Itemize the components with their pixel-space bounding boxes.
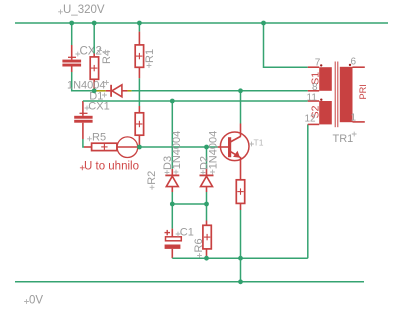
node junction D3 top row xyxy=(170,99,175,104)
coil S1 xyxy=(319,67,332,91)
wire row5 to 0V rail xyxy=(240,258,242,282)
svg-text:R1: R1 xyxy=(144,49,156,63)
pin 8 lead xyxy=(308,90,319,92)
node junction D2 row4 xyxy=(204,202,209,207)
label CX2 xyxy=(75,52,80,57)
node junction D2 base row xyxy=(204,145,209,150)
wire D1 row xyxy=(132,90,308,92)
resistor R6 xyxy=(203,221,211,259)
node junction top R4 xyxy=(92,21,97,26)
pin 7 lead xyxy=(308,66,319,68)
pin dot 11 xyxy=(320,99,322,101)
node junction collector xyxy=(238,88,243,93)
node junction D3 row4 xyxy=(170,202,175,207)
wire D2 bottom xyxy=(206,192,208,221)
pin 12 lead xyxy=(308,123,319,125)
node junction rail xyxy=(238,279,243,284)
pin 11 lead xyxy=(308,100,319,102)
wire CX2 bottom to D1 row xyxy=(72,72,95,91)
svg-text:0V: 0V xyxy=(29,295,43,307)
diode D2 xyxy=(200,169,214,192)
resistor R7 (emitter) xyxy=(236,180,244,210)
svg-text:1N4004: 1N4004 xyxy=(171,131,183,170)
svg-text:7: 7 xyxy=(315,58,321,69)
wire R1 column top xyxy=(138,23,140,32)
node junction lamp/R2 xyxy=(137,145,142,150)
node junction emitter row5 xyxy=(238,256,243,261)
pin dot 6 xyxy=(349,64,351,66)
node +U_320V top rail xyxy=(15,22,388,24)
wire collector column xyxy=(240,91,242,124)
svg-text:CX1: CX1 xyxy=(88,100,109,112)
coil S2 xyxy=(319,101,332,124)
resistor R4 xyxy=(90,54,98,91)
label T1 xyxy=(249,142,254,147)
wire R4 column top xyxy=(93,23,95,54)
svg-text:TR1: TR1 xyxy=(333,133,354,145)
capacitor CX1 xyxy=(74,101,92,139)
svg-text:11: 11 xyxy=(307,93,318,104)
label R5 xyxy=(87,136,92,141)
core lines xyxy=(334,62,336,128)
svg-text:1N4004: 1N4004 xyxy=(207,131,219,170)
svg-text:1: 1 xyxy=(351,113,357,124)
wire D3-D2 link row xyxy=(172,203,206,205)
wire top rail to pin7 xyxy=(264,23,308,67)
resistor R1 xyxy=(135,32,143,79)
node junction R6 row5 xyxy=(204,256,209,261)
svg-text:CX2: CX2 xyxy=(80,46,102,58)
wire emitter resistor to row5 xyxy=(240,210,242,258)
label U to uhnilo xyxy=(80,165,85,170)
resistor R5 xyxy=(84,143,117,150)
resistor R2 xyxy=(135,106,143,147)
pin 1 lead xyxy=(353,121,365,123)
wire D3 bottom xyxy=(171,192,173,229)
svg-text:12: 12 xyxy=(305,114,317,125)
transistor T1 xyxy=(218,124,249,180)
wire D3 column top xyxy=(171,101,173,169)
diode D1 xyxy=(97,85,132,97)
pin dot 7 xyxy=(320,64,322,66)
wire CX1 to R5 xyxy=(83,139,84,147)
svg-text:U to uhnilo: U to uhnilo xyxy=(84,160,139,172)
capacitor C1 xyxy=(165,229,182,259)
svg-text:R2: R2 xyxy=(146,171,158,185)
svg-text:PRI: PRI xyxy=(358,84,368,99)
wire pin12 column xyxy=(307,124,309,258)
node junction top pin7 xyxy=(261,21,266,26)
label +U_320V xyxy=(58,9,63,14)
node junction top R1 xyxy=(137,21,142,26)
node 0V bottom rail xyxy=(15,281,364,283)
wire ground link row xyxy=(172,257,307,259)
svg-text:U_320V: U_320V xyxy=(63,4,105,16)
wire CX1 row (S2 top row) xyxy=(83,100,308,102)
node junction D1 left xyxy=(92,88,97,93)
node junction top CX2 xyxy=(69,21,74,26)
diode D3 xyxy=(165,169,179,192)
wire CX2 column top xyxy=(71,23,73,45)
coil PRI xyxy=(340,67,353,122)
label 0V xyxy=(24,299,29,304)
label C1 xyxy=(176,232,181,237)
svg-text:8: 8 xyxy=(312,82,318,93)
svg-text:T1: T1 xyxy=(254,138,264,148)
svg-text:C1: C1 xyxy=(180,227,194,239)
label CX1 xyxy=(85,106,90,111)
svg-text:6: 6 xyxy=(351,57,357,68)
transformer TR1 xyxy=(308,62,365,128)
svg-text:R5: R5 xyxy=(92,131,106,143)
wire base row xyxy=(139,146,217,148)
wire R1 to R2 xyxy=(138,78,140,106)
svg-text:R6: R6 xyxy=(193,238,205,252)
lamp (circle) xyxy=(117,137,138,158)
pin 6 lead xyxy=(353,66,365,68)
wire D2 column xyxy=(206,147,208,169)
capacitor CX2 xyxy=(62,45,81,72)
